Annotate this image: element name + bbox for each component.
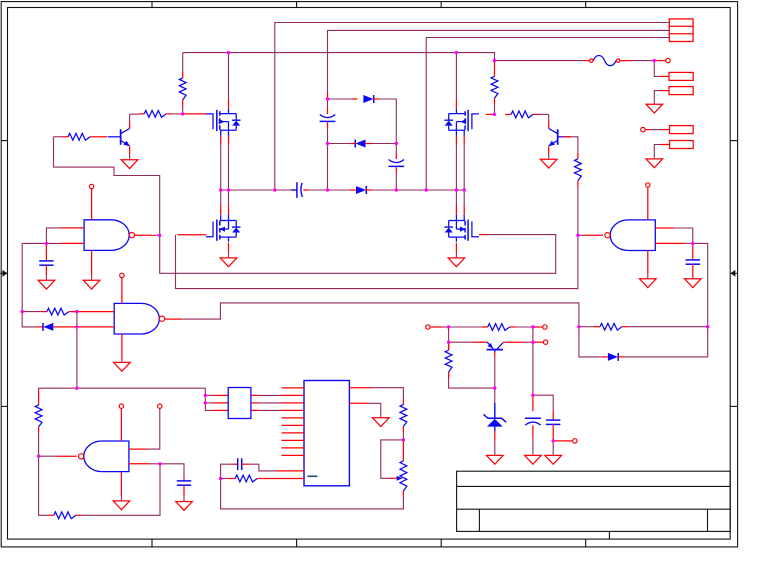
capacitor C3 (polarized): [388, 160, 404, 167]
wire mid rail to M3 drain: [228, 190, 230, 205]
red stub below node: [494, 61, 496, 71]
terminal circle row2: [543, 340, 547, 344]
crystal/filter X1: [228, 388, 251, 419]
U3 input1 pin: [129, 448, 147, 450]
wire R2 to gate node: [494, 104, 496, 114]
junction: [577, 325, 580, 328]
wire node B to terminal: [654, 60, 665, 62]
wire node F down: [448, 327, 450, 342]
capacitor C1 (series, polarized): [291, 182, 302, 198]
wire C5 to ground: [692, 277, 694, 278]
resistor R11: [400, 399, 407, 433]
red stub C3 top: [395, 153, 397, 159]
wire Q1 emitter to ground: [129, 154, 131, 159]
U3 bottom pin: [120, 472, 122, 496]
transistor Q1: [108, 129, 130, 147]
red stub Q3 collector: [503, 341, 523, 343]
junction: [21, 310, 24, 313]
wire U1 input1 to C4: [46, 228, 61, 244]
border zone tick right: [730, 405, 737, 407]
wire R4 to Q2 collector riser: [537, 113, 548, 115]
U5 left pin stub 3: [282, 424, 305, 426]
U1 input1 pin: [62, 227, 85, 229]
wire X1 to U5 pin4: [259, 409, 282, 411]
wire input to node F: [442, 326, 449, 328]
M3 drain pin: [228, 205, 230, 214]
wire U3 output to R10: [39, 456, 48, 515]
red stub circle row2: [533, 341, 544, 343]
wire node to C9: [533, 395, 553, 412]
wire node G down: [532, 327, 534, 342]
red stub D1 right: [373, 98, 379, 100]
ground under U5 pin: [373, 418, 390, 427]
wire C1 to D3: [309, 189, 350, 191]
U5 pin4 stub: [282, 409, 305, 411]
red stub input: [430, 326, 442, 328]
Q1 emitter pin: [129, 146, 131, 154]
resistor R12: [229, 475, 263, 482]
wire rail to fuse F1: [495, 60, 585, 62]
ground under U4: [640, 279, 657, 288]
U1 bottom pin: [91, 250, 93, 275]
wire U4 input2 to node D: [693, 243, 708, 326]
red stub Q1 base: [96, 136, 107, 138]
wire U2 inputs junction down to rail: [76, 312, 78, 389]
red stub C9 top: [552, 412, 554, 420]
junction: [273, 188, 276, 191]
wire pad P2 to ground: [654, 91, 660, 104]
wire C3 to mid rail: [395, 173, 397, 190]
wire R11 to node E: [402, 433, 404, 440]
red stub gate M1: [183, 113, 207, 115]
ground under pad P4: [646, 159, 663, 168]
ground under C4: [38, 280, 55, 289]
red stub pad P2: [661, 90, 670, 92]
junction: [227, 188, 230, 191]
border zone tick bottom: [440, 539, 442, 547]
red stub gate M4: [479, 234, 487, 236]
wire C6 to ground: [183, 496, 185, 501]
wire Q2 collector: [548, 114, 550, 121]
wire U3 bottom to ground: [120, 496, 122, 501]
NAND gate U2: [114, 303, 164, 334]
wire M4 source to ground: [455, 252, 457, 257]
wire U3 output to node: [39, 455, 57, 457]
wire circle to U3 input1: [147, 408, 160, 449]
pin circle F1 left: [590, 59, 594, 63]
M3 source pin: [228, 243, 230, 252]
red stub C8 top: [532, 395, 534, 411]
diode D3: [356, 186, 366, 194]
U4 bottom pin: [647, 251, 649, 275]
junction: [75, 387, 78, 390]
junction: [455, 188, 458, 191]
wire U5 pin to ground: [367, 403, 381, 417]
MOSFET M3 (lower left): [206, 215, 241, 242]
red stub D3 left: [350, 189, 356, 191]
U5 left pin stub 2: [282, 417, 305, 419]
wire R1 to node: [182, 106, 184, 114]
junction: [691, 242, 694, 245]
junction: [45, 242, 48, 245]
test pad P2: [669, 87, 693, 95]
wire rail to M2 drain: [455, 53, 457, 100]
resistor R4: [505, 111, 539, 118]
junction: [75, 325, 78, 328]
wire to D4: [22, 312, 37, 327]
M4 diode pin: [463, 205, 465, 214]
wire U4 input1 loop: [674, 228, 693, 243]
U4 top pin: [647, 187, 649, 220]
wire node A down: [327, 99, 329, 108]
wire RV1 wiper loop: [381, 440, 404, 478]
junction: [706, 325, 709, 328]
junction: [552, 439, 555, 442]
junction: [227, 51, 230, 54]
U5 pin3 stub: [282, 402, 305, 404]
capacitor C6: [177, 481, 191, 485]
border zone tick bottom: [151, 539, 153, 547]
junction: [531, 394, 534, 397]
junction: [531, 325, 534, 328]
wire RC node up to C7: [221, 464, 232, 478]
wire R6 to U4 output node: [577, 187, 579, 236]
terminal circle row1: [543, 325, 547, 329]
U5 pin12 stub: [263, 478, 304, 480]
wire to X1 pin1: [205, 394, 213, 396]
wire RV1 bottom rail to RC node: [221, 479, 404, 509]
resistor R8: [594, 323, 628, 330]
U3 input1 circle: [158, 404, 162, 408]
ground under Q1: [121, 160, 138, 169]
red stub output circle: [553, 440, 572, 442]
ground under C8: [525, 455, 542, 464]
ground under C5: [685, 279, 702, 288]
junction: [493, 113, 496, 116]
MOSFET M2 (upper right): [444, 109, 479, 136]
junction: [37, 455, 40, 458]
junction: [158, 234, 161, 237]
red stub D6 bottom: [494, 431, 496, 441]
wire U2 output to D5: [182, 303, 602, 357]
wire X1 to U5 pin3: [259, 402, 282, 404]
wire RC node to R12: [221, 478, 230, 480]
potentiometer RV1 body: [400, 461, 407, 491]
IC U5: [304, 381, 349, 486]
junction: [204, 394, 207, 397]
U1 output pin: [134, 234, 152, 236]
M2 diode pin: [463, 136, 465, 145]
border zone tick bottom: [296, 539, 298, 547]
ground under C9: [545, 455, 562, 464]
ground under pad P2: [646, 104, 663, 113]
wire pad P4 to ground: [654, 145, 660, 159]
U3 input2 pin: [129, 463, 150, 465]
junction: [326, 97, 329, 100]
red stub C8 bottom: [532, 425, 534, 438]
U3 output pin: [57, 455, 77, 457]
red stub gate M3: [178, 234, 207, 236]
diode D2: [355, 140, 365, 148]
border zone tick top: [440, 2, 442, 8]
X1 left pins: [214, 395, 229, 410]
wire C2 to mid rail: [327, 128, 329, 190]
red stub C5 bottom: [692, 264, 694, 277]
capacitor C5: [686, 260, 700, 264]
Q1 collector pin: [129, 122, 131, 129]
wire U1 input2 to U2 input1: [22, 243, 61, 311]
wire U4 bottom to ground: [647, 274, 649, 278]
title block: [457, 471, 731, 539]
resistor R2: [491, 70, 498, 104]
border center arrow left: [0, 270, 7, 277]
wire U4 output to node: [578, 234, 584, 236]
wire mid rail to M3 diode: [220, 190, 222, 205]
wire mid rail left segment: [221, 189, 291, 191]
wire D6 to ground: [494, 441, 496, 455]
transistor Q3 (PNP): [487, 342, 504, 352]
red stub C3 bottom: [395, 167, 397, 173]
capacitor C7: [238, 458, 242, 470]
junction: [493, 59, 496, 62]
U5 label mark: [308, 475, 318, 477]
output terminal circle: [573, 439, 577, 443]
wire to R5: [54, 136, 63, 138]
wire mid rail to M4 drain: [455, 190, 457, 205]
U2 top pin circle: [120, 273, 124, 277]
MOSFET M4 (lower right): [444, 215, 479, 242]
wire to X1 pin2: [205, 402, 213, 404]
X1 right pins: [251, 395, 259, 410]
wire fuse to node B: [631, 60, 654, 62]
border center arrow right: [731, 270, 738, 277]
U5 left pin stub 4: [282, 432, 305, 434]
junction: [395, 188, 398, 191]
U2 output pin: [165, 318, 183, 320]
border zone tick right: [730, 140, 737, 142]
junction: [447, 325, 450, 328]
wire net2 to connector pin2: [328, 30, 670, 94]
wire Q1 collector: [129, 114, 131, 121]
wire C9 to ground: [552, 441, 554, 455]
wire C4 to ground: [45, 275, 47, 280]
test pad P1: [669, 72, 693, 80]
U1 top pin: [91, 189, 93, 220]
wire R8 to node D: [628, 326, 708, 328]
U1 top pin circle: [89, 184, 93, 188]
red stub R14 top: [448, 342, 450, 350]
red stub C6 top: [183, 478, 185, 480]
U5 right pin1: [349, 387, 371, 389]
wire M1 source to mid rail: [228, 145, 230, 190]
diode D1: [363, 95, 373, 103]
wire M2 source to mid rail: [455, 145, 457, 190]
wire red stub above node A: [327, 93, 329, 99]
red stub C6 bottom: [183, 485, 185, 496]
red stub C1 left: [291, 189, 295, 191]
U4 output pin: [584, 234, 603, 236]
wire to junction: [684, 242, 693, 244]
red stub C1 right: [303, 189, 309, 191]
red stub D1 left: [351, 98, 357, 100]
border zone tick left: [2, 140, 8, 142]
red stub D5 left: [602, 356, 608, 358]
ground under M4: [448, 258, 465, 267]
U2 top pin: [121, 278, 123, 304]
M3 diode pin: [220, 205, 222, 214]
U4 input2 pin: [655, 242, 684, 244]
border zone tick top: [585, 2, 587, 8]
resistor R6: [575, 153, 582, 187]
junction: [576, 234, 579, 237]
junction: [181, 112, 184, 115]
ground under D6: [487, 455, 504, 464]
capacitor C9: [546, 420, 560, 424]
red stub C5 top: [692, 243, 694, 259]
wire to pad P3: [651, 129, 661, 131]
wire Q1 base net staircase to U1 output: [54, 137, 160, 236]
red stub Q3 emitter: [473, 341, 487, 343]
red stub D3 right: [366, 189, 372, 191]
resistor R9: [35, 399, 42, 433]
resistor R3: [138, 111, 172, 118]
wire R10 to U3 input2: [82, 464, 160, 516]
U2 input2 pin: [53, 326, 114, 328]
border zone tick top: [296, 2, 298, 8]
diode D5: [608, 353, 618, 361]
red stub D2 right: [366, 143, 372, 145]
wire mid rail right segment: [372, 189, 464, 191]
wire R13 to node G: [516, 326, 533, 328]
wire node to D6: [494, 388, 496, 403]
wire C7 to U5 pin11: [248, 464, 276, 471]
ground under Q2: [540, 159, 557, 168]
input terminal circle: [426, 325, 430, 329]
red stub RV1 bottom: [402, 491, 404, 497]
ground under U1: [83, 280, 100, 289]
wire M4 gate loop to U1 output: [160, 235, 556, 274]
border zone tick top: [151, 2, 153, 8]
NAND gate U4: [605, 220, 655, 251]
wire M3 gate to U4 output: [176, 235, 578, 289]
wire rail to X1 pin3: [77, 388, 214, 410]
red stub R14 bottom2: [448, 372, 450, 378]
wire Q3 collector to node G: [524, 341, 533, 343]
U4 top pin circle: [646, 183, 650, 187]
U5 pin2 stub: [282, 394, 305, 396]
red stub pad P3: [661, 129, 670, 131]
resistor R1: [179, 72, 186, 106]
M4 source pin: [455, 243, 457, 252]
U5 left pin stub 5: [282, 439, 305, 441]
wire node A to D1: [328, 98, 352, 100]
MOSFET M1 (upper left): [206, 109, 241, 136]
junction: [425, 188, 428, 191]
junction: [463, 188, 466, 191]
red stub pad P4: [661, 144, 670, 146]
wire rail to M1 drain: [228, 53, 230, 100]
wire to R7: [22, 311, 41, 313]
wire mid rail to M4 diode: [463, 190, 465, 205]
M1 source pin: [228, 136, 230, 145]
red stub D2 left: [350, 143, 356, 145]
Q2 base pin: [563, 136, 571, 138]
wire to junction: [150, 463, 160, 465]
wire D1 to node C: [379, 99, 396, 144]
resistor R13: [482, 324, 516, 331]
junction: [75, 310, 78, 313]
capacitor C8 (polarized): [525, 418, 541, 425]
wire M1 diode to mid rail: [220, 145, 222, 190]
U5 left pin stub 7: [282, 454, 305, 456]
junction: [326, 142, 329, 145]
red stub pad P1: [661, 75, 670, 77]
border zone tick bottom: [585, 539, 587, 547]
diode D4: [43, 323, 53, 331]
junction: [402, 438, 405, 441]
junction: [447, 341, 450, 344]
red stub C4 top: [45, 243, 47, 260]
junction: [455, 51, 458, 54]
red stub Q3 base: [494, 352, 496, 358]
wire circle to pad P3: [645, 129, 651, 131]
U3 top pin circle: [119, 404, 123, 408]
wire node B to pad P1: [654, 61, 660, 77]
RV1 wiper arrow: [390, 476, 403, 481]
junction: [219, 477, 222, 480]
wire node G down to C8: [532, 342, 534, 395]
wire R14 to zener node: [449, 378, 495, 388]
red stub to circle: [533, 326, 543, 328]
wire R9 to U3 output node: [38, 433, 40, 456]
wire Q2 base to R6: [571, 137, 578, 153]
U1 input2 pin: [62, 242, 85, 244]
NAND gate U3: [79, 441, 129, 472]
M2 drain pin: [455, 100, 457, 109]
NAND gate U1: [84, 220, 134, 251]
red stub C2 bottom: [327, 122, 329, 128]
test pad P3: [670, 126, 694, 134]
red stub C7 left: [232, 463, 238, 465]
ground under U2: [114, 362, 131, 371]
red stub C2 top: [327, 108, 329, 114]
ground under U3: [113, 501, 130, 510]
wire node F to R13: [449, 326, 482, 328]
wire node to R8: [579, 326, 594, 328]
capacitor C4: [39, 261, 53, 265]
red stub C7 right: [242, 463, 248, 465]
ground under M3: [220, 258, 237, 267]
wire M2 diode to mid rail: [463, 145, 465, 190]
red stub C4 bottom: [45, 265, 47, 275]
test pad P4: [670, 141, 694, 149]
wire D2 to node C: [372, 143, 397, 145]
U2 input1 pin: [73, 311, 114, 313]
fuse F1: [584, 56, 631, 66]
junction: [326, 188, 329, 191]
wire R3 to gate node left: [172, 113, 183, 115]
U5 left pin stub 1: [282, 387, 305, 389]
junction: [493, 386, 496, 389]
pin circle F1 right: [616, 59, 620, 63]
junction: [219, 188, 222, 191]
M4 drain pin: [455, 205, 457, 214]
connector J1 (3-pin header): [669, 19, 693, 42]
U4 input1 pin: [655, 227, 674, 229]
junction: [653, 59, 656, 62]
red stub D5 right: [618, 356, 624, 358]
wire to Q3 emitter: [449, 341, 473, 343]
